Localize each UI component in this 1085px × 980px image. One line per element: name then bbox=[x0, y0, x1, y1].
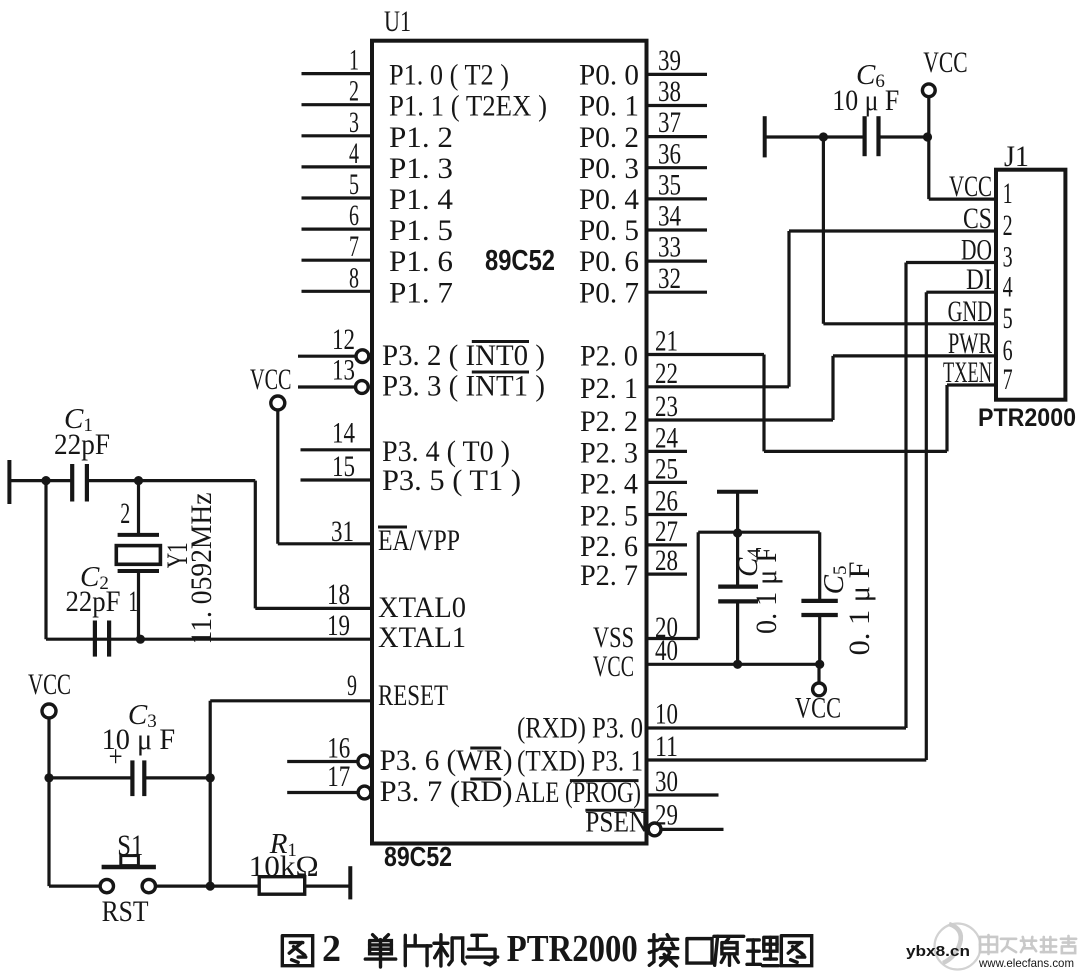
pin label P3.2 INT0 bbox=[382, 339, 545, 372]
node junction VCC-C6 bbox=[923, 132, 932, 141]
svg-text:VCC: VCC bbox=[28, 668, 71, 701]
svg-text:P2. 6: P2. 6 bbox=[580, 530, 638, 563]
pin number 37 bbox=[658, 106, 681, 139]
pin 32 wire bbox=[647, 291, 708, 294]
caption char tu 2 bbox=[781, 936, 811, 966]
caption char jie bbox=[649, 935, 677, 966]
svg-text:31: 31 bbox=[331, 515, 354, 548]
pin number 31 bbox=[331, 515, 354, 548]
pin 22 wire bbox=[647, 385, 790, 388]
VCC terminal circle top right bbox=[922, 84, 935, 97]
node junction C4 top bbox=[733, 528, 742, 537]
svg-text:26: 26 bbox=[655, 485, 678, 518]
pin number 19 bbox=[327, 609, 350, 642]
wire reset vertical bbox=[209, 701, 212, 886]
svg-text:GND: GND bbox=[948, 295, 992, 328]
refdes J1 bbox=[1004, 140, 1029, 173]
svg-text:6: 6 bbox=[1003, 334, 1013, 367]
svg-text:J1: J1 bbox=[1004, 140, 1029, 173]
watermark logo circle bbox=[935, 924, 981, 970]
capacitor C6 plates bbox=[865, 116, 879, 156]
pin 5 wire bbox=[302, 196, 373, 199]
pin label P0. 0 bbox=[579, 59, 639, 92]
pin label P2. 0 bbox=[580, 340, 638, 373]
J1 pin number 2 bbox=[1003, 209, 1013, 242]
wire C1 row bbox=[9, 479, 72, 482]
node junction C3 left bbox=[44, 773, 53, 782]
svg-text:2: 2 bbox=[322, 928, 341, 970]
crystal Y1 bottom plate bbox=[118, 569, 159, 573]
pin 14 wire bbox=[301, 448, 373, 451]
J1 pin 4 label DI bbox=[966, 263, 992, 296]
pin number 15 bbox=[332, 450, 355, 483]
pin 34 wire bbox=[647, 228, 708, 231]
capacitor C4 plates bbox=[718, 587, 758, 602]
label C6 bbox=[856, 59, 885, 92]
refdes U1 bbox=[384, 5, 411, 38]
wire GND row to J1 pin5 bbox=[823, 322, 996, 325]
pin 16 wire bbox=[287, 760, 358, 763]
node junction crystal bottom bbox=[136, 635, 145, 644]
wire VCC down to J1 pin1 bbox=[929, 97, 996, 199]
pin 40 wire VCC bbox=[647, 663, 820, 666]
node junction C5 bottom bbox=[815, 660, 824, 669]
wire VCC to pin31 bbox=[276, 410, 279, 543]
svg-text:P0. 0: P0. 0 bbox=[579, 59, 639, 92]
crystal Y1 body bbox=[116, 546, 160, 565]
caption char ji bbox=[434, 935, 465, 966]
svg-text:7: 7 bbox=[349, 230, 359, 263]
overline PROG bbox=[570, 779, 639, 782]
pin 17 wire bbox=[287, 791, 358, 794]
resistor R1 body bbox=[259, 877, 305, 895]
pin 16 bubble bbox=[358, 755, 371, 768]
pin label VSS bbox=[593, 621, 634, 654]
pin number 26 bbox=[655, 485, 678, 518]
svg-text:P1. 6: P1. 6 bbox=[389, 245, 453, 278]
svg-text:P1. 2: P1. 2 bbox=[389, 121, 453, 154]
capacitor C5 plates bbox=[801, 601, 837, 615]
label 10uF (C3) bbox=[102, 723, 176, 756]
pin 30 wire ALE bbox=[647, 793, 719, 796]
svg-text:11: 11 bbox=[655, 730, 678, 763]
svg-text:P2. 1: P2. 1 bbox=[580, 372, 638, 405]
svg-text:22: 22 bbox=[655, 357, 678, 390]
pin 8 wire bbox=[302, 290, 373, 293]
pin 27 wire bbox=[647, 543, 688, 546]
J1 pin 6 label PWR bbox=[948, 327, 992, 360]
caption char pian bbox=[405, 935, 431, 965]
pin number 27 bbox=[655, 515, 678, 548]
pin label P2. 3 bbox=[580, 436, 638, 469]
J1 pin number 3 bbox=[1003, 241, 1013, 274]
svg-text:3: 3 bbox=[349, 106, 359, 139]
pin 20 wire VSS bbox=[647, 637, 699, 640]
svg-text:10: 10 bbox=[655, 697, 678, 730]
label 22pF (C2) bbox=[66, 585, 121, 618]
pin label P2. 6 bbox=[580, 530, 638, 563]
watermark char 1 bbox=[980, 935, 997, 954]
pin 25 wire bbox=[647, 481, 688, 484]
svg-text:30: 30 bbox=[655, 765, 678, 798]
label 0.1uF C5 (rotated) bbox=[843, 561, 876, 655]
wire XTAL0 drop bbox=[254, 481, 257, 609]
svg-text:P0. 4: P0. 4 bbox=[579, 183, 639, 216]
svg-text:5: 5 bbox=[349, 168, 359, 201]
svg-text:89C52: 89C52 bbox=[384, 841, 452, 872]
pin number 25 bbox=[655, 452, 678, 485]
VCC terminal circle bottom bbox=[813, 683, 826, 696]
pin label P3.3 INT1 bbox=[382, 370, 545, 403]
svg-text:U1: U1 bbox=[384, 5, 411, 38]
svg-text:VCC: VCC bbox=[593, 650, 634, 683]
pin number 10 bbox=[655, 697, 678, 730]
svg-text:1: 1 bbox=[1003, 177, 1013, 210]
wire C3 left bbox=[49, 776, 132, 779]
pin 6 wire bbox=[302, 228, 373, 231]
VCC label bottom bbox=[795, 692, 841, 725]
caption char yuan bbox=[714, 936, 744, 965]
pin number 7 bbox=[349, 230, 359, 263]
svg-text:23: 23 bbox=[655, 390, 678, 423]
svg-text:6: 6 bbox=[349, 199, 359, 232]
VCC terminal circle for EA bbox=[271, 396, 285, 410]
J1 pin number 6 bbox=[1003, 334, 1013, 367]
overline WR bbox=[470, 747, 501, 750]
pin label RESET bbox=[378, 679, 448, 712]
switch S1 left contact bbox=[100, 879, 113, 892]
pin 31 wire bbox=[278, 542, 372, 545]
VCC terminal circle reset bbox=[42, 704, 56, 718]
pin label EA/VPP bbox=[378, 524, 460, 557]
caption char tu bbox=[282, 936, 312, 966]
wire VCC drop below C5 bbox=[817, 664, 820, 683]
overline RD bbox=[470, 778, 501, 781]
svg-text:P2. 0: P2. 0 bbox=[580, 340, 638, 373]
pin number 8 bbox=[349, 261, 359, 294]
watermark char 2 bbox=[1001, 939, 1016, 952]
pin 18 wire bbox=[255, 607, 372, 610]
pin label P0. 6 bbox=[579, 245, 639, 278]
svg-text:9: 9 bbox=[347, 669, 357, 702]
pin label P0. 2 bbox=[579, 121, 639, 154]
pin 26 wire bbox=[647, 513, 688, 516]
wire DI route bbox=[926, 292, 996, 760]
wire left drop C1-C2 bbox=[44, 481, 47, 640]
wire VSS drop bbox=[697, 532, 700, 638]
J1 pin 5 label GND bbox=[948, 295, 992, 328]
pin 12 bubble bbox=[356, 350, 369, 363]
crystal Y1 bottom stem bbox=[137, 571, 140, 639]
svg-text:2: 2 bbox=[349, 75, 359, 108]
node junction C3 right bbox=[206, 773, 215, 782]
svg-text:P2. 5: P2. 5 bbox=[580, 500, 638, 533]
pin number 11 bbox=[655, 730, 678, 763]
pin number 18 bbox=[327, 578, 350, 611]
wire GND vertical bbox=[822, 137, 825, 324]
J1 pin number 1 bbox=[1003, 177, 1013, 210]
svg-text:ybx8.cn: ybx8.cn bbox=[906, 943, 970, 960]
svg-text:CS: CS bbox=[963, 202, 992, 235]
pin label ALE PROG bbox=[515, 776, 641, 809]
pin number 21 bbox=[655, 325, 678, 358]
pin number 3 bbox=[349, 106, 359, 139]
label C3 bbox=[128, 699, 157, 732]
svg-text:P1. 4: P1. 4 bbox=[389, 183, 453, 216]
svg-text:TXEN: TXEN bbox=[943, 356, 992, 389]
switch S1 right contact bbox=[142, 879, 155, 892]
pin label P1. 5 bbox=[389, 214, 453, 247]
svg-text:P3. 3 ( INT1 ): P3. 3 ( INT1 ) bbox=[382, 370, 545, 403]
svg-text:40: 40 bbox=[655, 634, 678, 667]
label 10kOhm bbox=[249, 850, 319, 883]
pin 38 wire bbox=[647, 104, 708, 107]
capacitor C5 top stem bbox=[818, 532, 821, 601]
capacitor C4 top stem bbox=[736, 532, 739, 586]
pin 39 wire bbox=[647, 73, 708, 76]
pin number 5 bbox=[349, 168, 359, 201]
open terminal above C4 bbox=[717, 492, 758, 532]
pin number 30 bbox=[655, 765, 678, 798]
label C2 bbox=[80, 561, 109, 594]
svg-text:28: 28 bbox=[655, 544, 678, 577]
pin 7 wire bbox=[302, 259, 373, 262]
svg-text:P2. 4: P2. 4 bbox=[580, 467, 638, 500]
pin 21 wire bbox=[647, 353, 765, 356]
svg-text:4: 4 bbox=[1003, 270, 1013, 303]
J1 pin 7 label TXEN bbox=[943, 356, 992, 389]
pin label XTAL0 bbox=[378, 591, 466, 624]
label 10uF (C6) bbox=[832, 84, 899, 117]
svg-text:22pF: 22pF bbox=[66, 585, 121, 618]
pin 15 wire bbox=[301, 478, 373, 481]
pin number 33 bbox=[658, 231, 681, 264]
svg-text:35: 35 bbox=[658, 169, 681, 202]
pin label PSEN bbox=[585, 806, 647, 839]
pin label P3.6 WR bbox=[380, 744, 513, 777]
crystal pin 1 label bbox=[128, 585, 138, 618]
svg-text:XTAL0: XTAL0 bbox=[378, 591, 466, 624]
caption PTR2000 bbox=[507, 928, 638, 970]
pin number 22 bbox=[655, 357, 678, 390]
svg-text:7: 7 bbox=[1003, 363, 1013, 396]
open terminal left bbox=[7, 460, 11, 504]
J1 pin 2 label CS bbox=[963, 202, 992, 235]
crystal pin 2 label bbox=[120, 497, 130, 530]
pin number 24 bbox=[655, 421, 678, 454]
svg-text:P3. 2 ( INT0 ): P3. 2 ( INT0 ) bbox=[382, 339, 545, 372]
svg-text:36: 36 bbox=[658, 137, 681, 170]
svg-text:12: 12 bbox=[332, 323, 355, 356]
pin label P1. 4 bbox=[389, 183, 453, 216]
wire VCC down reset bbox=[47, 718, 50, 886]
svg-text:VCC: VCC bbox=[949, 170, 992, 203]
svg-text:PTR2000: PTR2000 bbox=[978, 404, 1076, 432]
svg-text:3: 3 bbox=[1003, 241, 1013, 274]
svg-text:(TXD) P3. 1: (TXD) P3. 1 bbox=[517, 745, 643, 778]
label 11.0592MHz (rotated) bbox=[185, 493, 218, 645]
pin 2 wire bbox=[302, 103, 373, 106]
caption char yu bbox=[467, 935, 498, 964]
switch S1 knob bbox=[121, 856, 139, 866]
pin 12 wire bbox=[298, 355, 356, 358]
J1 pin number 5 bbox=[1003, 302, 1013, 335]
pin number 12 bbox=[332, 323, 355, 356]
label R1 bbox=[269, 828, 297, 861]
pin label P0. 4 bbox=[579, 183, 639, 216]
svg-text:+: + bbox=[109, 740, 123, 773]
svg-text:38: 38 bbox=[658, 75, 681, 108]
node junction C4 bottom bbox=[733, 660, 742, 669]
pin number 23 bbox=[655, 390, 678, 423]
label plus C3 bbox=[109, 740, 123, 773]
pin number 1 bbox=[349, 44, 359, 77]
pin label P2. 2 bbox=[580, 405, 638, 438]
pin label P2. 7 bbox=[580, 559, 638, 592]
svg-text:32: 32 bbox=[658, 262, 681, 295]
J1 pin 3 label DO bbox=[961, 234, 992, 267]
pin number 16 bbox=[327, 732, 350, 765]
svg-text:P1. 5: P1. 5 bbox=[389, 214, 453, 247]
crystal Y1 top plate bbox=[118, 533, 159, 537]
svg-text:4: 4 bbox=[349, 137, 359, 170]
svg-text:89C52: 89C52 bbox=[485, 245, 555, 277]
open terminal R1 right bbox=[348, 866, 352, 899]
pin label P2. 4 bbox=[580, 467, 638, 500]
svg-text:P0. 6: P0. 6 bbox=[579, 245, 639, 278]
VCC label reset bbox=[28, 668, 71, 701]
pin number 32 bbox=[658, 262, 681, 295]
pin number 36 bbox=[658, 137, 681, 170]
svg-text:P0. 1: P0. 1 bbox=[579, 90, 639, 123]
switch S1 label bbox=[117, 829, 143, 862]
connector J1 body bbox=[996, 170, 1065, 400]
pin number 34 bbox=[658, 200, 681, 233]
caption 2 bbox=[322, 928, 341, 970]
pin 29 bubble bbox=[648, 823, 661, 836]
svg-text:18: 18 bbox=[327, 578, 350, 611]
pin 1 wire bbox=[302, 72, 373, 75]
pin 19 wire bbox=[46, 638, 372, 641]
part number 89C52 inside chip bbox=[485, 245, 555, 277]
IC U1 89C52 body bbox=[372, 41, 647, 844]
svg-text:P2. 3: P2. 3 bbox=[580, 436, 638, 469]
watermark char 5 bbox=[1061, 936, 1076, 953]
label 22pF (C1) bbox=[54, 428, 110, 461]
node junction C1-left bbox=[41, 476, 50, 485]
pin 23 wire bbox=[647, 418, 834, 421]
svg-text:13: 13 bbox=[332, 354, 355, 387]
svg-text:RESET: RESET bbox=[378, 679, 448, 712]
pin label P0. 7 bbox=[579, 276, 639, 309]
switch S1 bar bbox=[102, 865, 156, 870]
part number 89C52 below chip bbox=[384, 841, 452, 872]
pin label TXD P3.1 bbox=[517, 745, 643, 778]
svg-text:8: 8 bbox=[349, 261, 359, 294]
pin number 28 bbox=[655, 544, 678, 577]
svg-text:VCC: VCC bbox=[795, 692, 841, 725]
svg-text:37: 37 bbox=[658, 106, 681, 139]
pin number 13 bbox=[332, 354, 355, 387]
svg-text:www.elecfans.com: www.elecfans.com bbox=[978, 956, 1074, 970]
pin number 4 bbox=[349, 137, 359, 170]
pin number 38 bbox=[658, 75, 681, 108]
watermark ybx8.cn bbox=[906, 943, 970, 960]
pin label P3.5 T1 bbox=[382, 464, 521, 497]
svg-text:5: 5 bbox=[1003, 302, 1013, 335]
watermark url bbox=[978, 956, 1074, 970]
node junction GND branch bbox=[819, 132, 828, 141]
svg-text:0. 1 μ F: 0. 1 μ F bbox=[750, 547, 783, 634]
wire C1 to crystal top bbox=[87, 479, 255, 482]
crystal Y1 top stem bbox=[137, 481, 140, 535]
pin label VCC bbox=[593, 650, 634, 683]
capacitor C1 plates bbox=[72, 464, 87, 502]
pin label XTAL1 bbox=[378, 621, 466, 654]
svg-text:10 μ F: 10 μ F bbox=[832, 84, 899, 117]
pin number 6 bbox=[349, 199, 359, 232]
pin number 29 bbox=[655, 799, 678, 832]
wire DO route bbox=[906, 263, 996, 729]
pin 10 wire RXD bbox=[647, 726, 907, 729]
pin label P0. 5 bbox=[579, 214, 639, 247]
pin number 40 bbox=[655, 634, 678, 667]
pin number 39 bbox=[658, 44, 681, 77]
pin 33 wire bbox=[647, 260, 708, 263]
watermark char 3 bbox=[1021, 937, 1036, 952]
wire PWR route bbox=[833, 356, 996, 420]
svg-text:P0. 7: P0. 7 bbox=[579, 276, 639, 309]
svg-text:P2. 7: P2. 7 bbox=[580, 559, 638, 592]
svg-text:DO: DO bbox=[961, 234, 992, 267]
svg-text:(RXD) P3. 0: (RXD) P3. 0 bbox=[517, 712, 643, 745]
svg-text:2: 2 bbox=[1003, 209, 1013, 242]
wire S1 left bbox=[49, 884, 100, 887]
svg-text:11. 0592MHz: 11. 0592MHz bbox=[185, 493, 218, 645]
svg-text:VCC: VCC bbox=[923, 46, 967, 79]
pin label P1. 7 bbox=[389, 276, 453, 309]
wire C3 right bbox=[144, 776, 210, 779]
pin label P0. 1 bbox=[579, 90, 639, 123]
pin 29 wire PSEN bbox=[661, 828, 723, 831]
pin label RXD P3.0 bbox=[517, 712, 643, 745]
label C4 (rotated) bbox=[732, 548, 765, 577]
pin 35 wire bbox=[647, 197, 708, 200]
label 0.1uF C4 (rotated) bbox=[750, 547, 783, 634]
svg-text:1: 1 bbox=[349, 44, 359, 77]
pin 24 wire bbox=[647, 450, 688, 453]
label C1 bbox=[64, 403, 93, 436]
pin label P1. 6 bbox=[389, 245, 453, 278]
svg-text:25: 25 bbox=[655, 452, 678, 485]
pin number 20 bbox=[655, 611, 678, 644]
capacitor C3 plates bbox=[132, 760, 144, 796]
wire C6 right bbox=[879, 135, 929, 138]
wire C6 left bbox=[765, 135, 865, 138]
open terminal C6 left bbox=[763, 116, 767, 157]
svg-text:DI: DI bbox=[966, 263, 992, 296]
svg-text:P0. 5: P0. 5 bbox=[579, 214, 639, 247]
label PTR2000 bbox=[978, 404, 1076, 432]
svg-text:15: 15 bbox=[332, 450, 355, 483]
pin 36 wire bbox=[647, 166, 708, 169]
label RST bbox=[102, 895, 149, 928]
label Y1 (rotated) bbox=[161, 542, 194, 568]
pin label P2. 5 bbox=[580, 500, 638, 533]
pin label P2. 1 bbox=[580, 372, 638, 405]
svg-text:29: 29 bbox=[655, 799, 678, 832]
VCC label for EA bbox=[250, 363, 292, 396]
